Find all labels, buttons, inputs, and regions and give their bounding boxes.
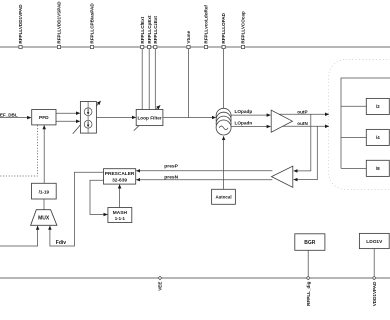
- svg-text:Loop Filter: Loop Filter: [137, 115, 161, 120]
- svg-text:MUX: MUX: [38, 216, 50, 222]
- svg-text:/8: /8: [376, 166, 380, 171]
- svg-text:RFPLLCPBiasPAD: RFPLLCPBiasPAD: [90, 3, 95, 44]
- svg-text:VEE: VEE: [158, 282, 163, 291]
- svg-text:outN: outN: [297, 121, 308, 126]
- svg-text:RFPLLVCOcap: RFPLLVCOcap: [241, 11, 246, 44]
- svg-text:RFPLLCfExt: RFPLLCfExt: [140, 16, 145, 43]
- svg-text:presN: presN: [164, 175, 178, 181]
- svg-text:Vtune: Vtune: [186, 30, 191, 43]
- svg-text:Autocal: Autocal: [215, 195, 231, 200]
- svg-text:RFPLLCzExt: RFPLLCzExt: [153, 16, 158, 44]
- svg-text:/2: /2: [376, 104, 380, 109]
- svg-text:LOpadn: LOpadn: [235, 121, 253, 126]
- svg-text:LOpadp: LOpadp: [235, 109, 253, 114]
- svg-text:VDD1VPAD: VDD1VPAD: [372, 281, 377, 306]
- svg-text:RFPLLLOPAD: RFPLLLOPAD: [221, 12, 226, 43]
- svg-text:RFPLLVDD1VSPAD: RFPLLVDD1VSPAD: [57, 1, 62, 44]
- svg-text:/4: /4: [376, 135, 380, 140]
- svg-text:Fdiv: Fdiv: [56, 240, 66, 246]
- svg-text:LDO1V: LDO1V: [366, 239, 383, 245]
- svg-text:RFPLLCpExt: RFPLLCpExt: [147, 15, 152, 44]
- svg-text:1-1-1: 1-1-1: [115, 216, 126, 221]
- svg-text:RFPLL_dig: RFPLL_dig: [306, 281, 311, 305]
- svg-text:RFPLLvcoLdoRef: RFPLLvcoLdoRef: [204, 5, 209, 44]
- svg-text:outP: outP: [297, 109, 307, 114]
- svg-text:PRESCALER: PRESCALER: [105, 171, 135, 177]
- svg-text:32-639: 32-639: [112, 178, 127, 184]
- svg-text:PFD: PFD: [39, 115, 49, 121]
- svg-text:/1-19: /1-19: [39, 190, 50, 195]
- svg-text:BGR: BGR: [304, 240, 316, 246]
- svg-text:presP: presP: [164, 163, 178, 169]
- svg-text:RFPLLVDD1VPAD: RFPLLVDD1VPAD: [18, 4, 23, 44]
- svg-text:REF_DBL: REF_DBL: [0, 113, 18, 118]
